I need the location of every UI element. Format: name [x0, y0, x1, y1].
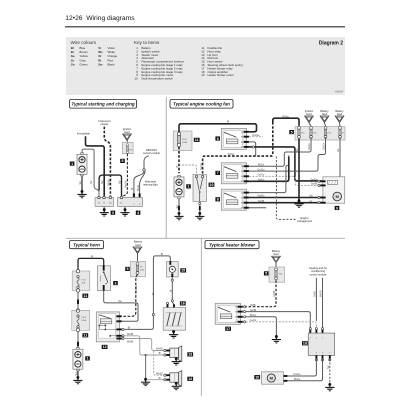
svg-text:Gn/Ge: Gn/Ge [257, 168, 265, 171]
svg-text:H33054: H33054 [335, 92, 344, 94]
svg-text:Heater blower motor: Heater blower motor [208, 73, 234, 77]
svg-text:Rt: Rt [91, 256, 94, 259]
svg-text:100A: 100A [182, 141, 187, 144]
svg-text:Ws/Sw: Ws/Sw [135, 285, 138, 293]
svg-text:100A: 100A [81, 319, 86, 322]
svg-text:Sw: Sw [309, 195, 313, 198]
svg-text:Br: Br [159, 377, 162, 380]
svg-text:Sw/Ge: Sw/Ge [257, 195, 265, 198]
svg-text:Black: Black [108, 62, 116, 66]
svg-text:1: 1 [71, 162, 73, 166]
svg-text:Wire colours: Wire colours [71, 40, 97, 45]
svg-text:1: 1 [87, 357, 89, 361]
svg-text:3: 3 [112, 211, 114, 215]
svg-text:Sw: Sw [118, 300, 122, 303]
svg-text:feed: feed [135, 243, 141, 247]
svg-text:12: 12 [103, 345, 107, 349]
svg-text:Gn/Gr: Gn/Gr [323, 143, 326, 150]
svg-text:control module: control module [143, 151, 161, 155]
svg-text:Br: Br [170, 289, 173, 292]
svg-text:5: 5 [122, 159, 124, 163]
svg-text:feed: feed [273, 252, 279, 256]
svg-text:Sw: Sw [75, 372, 78, 376]
svg-text:Br: Br [159, 352, 162, 355]
svg-text:Sw/Gr: Sw/Gr [258, 179, 265, 182]
svg-text:Sw/Bl: Sw/Bl [258, 200, 265, 203]
svg-text:Ws/Bl: Ws/Bl [156, 372, 163, 375]
svg-text:Rt: Rt [227, 121, 230, 124]
svg-text:12•26 Wiring diagrams: 12•26 Wiring diagrams [65, 15, 135, 22]
svg-text:9: 9 [336, 206, 338, 210]
svg-text:Sw: Sw [327, 365, 330, 369]
svg-text:Sw: Sw [296, 148, 299, 152]
svg-text:1: 1 [188, 185, 190, 189]
svg-text:Rt/Bl: Rt/Bl [250, 304, 256, 307]
svg-text:Ge/Gr: Ge/Gr [250, 319, 257, 322]
svg-text:Gr/Ge: Gr/Ge [258, 174, 265, 177]
svg-text:warning light: warning light [143, 183, 158, 187]
svg-text:19: 19 [255, 376, 259, 380]
svg-text:Gn/Ge: Gn/Ge [252, 134, 260, 137]
svg-text:Sw/Bl: Sw/Bl [311, 183, 318, 186]
svg-text:Rt/Ge: Rt/Ge [258, 163, 265, 166]
svg-text:Dual temperature switch: Dual temperature switch [142, 77, 174, 81]
svg-text:Sw: Sw [101, 180, 104, 184]
svg-text:Immobiliser: Immobiliser [77, 132, 90, 136]
svg-text:2: 2 [115, 281, 117, 285]
svg-text:feed: feed [337, 112, 343, 116]
svg-text:Gr: Gr [310, 200, 313, 203]
svg-text:Gn: Gn [71, 62, 75, 66]
svg-text:Bl/Gn: Bl/Gn [137, 184, 140, 191]
svg-text:Rt/Gn: Rt/Gn [308, 143, 311, 150]
svg-text:Sw: Sw [79, 181, 82, 185]
svg-text:Key to items: Key to items [134, 40, 160, 45]
svg-text:Green: Green [80, 62, 88, 66]
svg-text:15: 15 [181, 269, 185, 273]
svg-text:7: 7 [217, 171, 219, 175]
svg-text:Ws/Bl: Ws/Bl [127, 333, 134, 336]
svg-text:control module: control module [309, 272, 327, 276]
svg-text:feed: feed [306, 112, 312, 116]
svg-text:5: 5 [291, 130, 293, 134]
svg-text:16: 16 [181, 302, 185, 306]
svg-text:Rt/Sw: Rt/Sw [108, 179, 111, 186]
svg-text:Br: Br [161, 253, 164, 256]
svg-text:Sw: Sw [98, 62, 103, 66]
svg-text:Or/Bl: Or/Bl [314, 291, 317, 297]
svg-text:Gn/Bl: Gn/Bl [250, 309, 257, 312]
svg-text:feed: feed [322, 112, 328, 116]
svg-text:18: 18 [303, 342, 307, 346]
svg-text:Br: Br [128, 327, 131, 330]
svg-text:4: 4 [137, 211, 139, 215]
svg-text:Br/Gn: Br/Gn [250, 314, 257, 317]
svg-text:Gn/Bl: Gn/Bl [273, 290, 276, 297]
svg-text:Sw/Ge: Sw/Ge [310, 179, 318, 182]
svg-text:management: management [297, 219, 312, 223]
svg-text:Rt/Sw: Rt/Sw [282, 115, 289, 118]
svg-text:Ws/Bl: Ws/Bl [156, 348, 163, 351]
svg-text:Ws/Bl: Ws/Bl [320, 290, 323, 297]
svg-text:Sw/Ge: Sw/Ge [125, 180, 128, 188]
svg-text:8: 8 [217, 198, 219, 202]
svg-text:Ws/Bl: Ws/Bl [127, 340, 134, 343]
svg-text:feed: feed [124, 130, 130, 134]
svg-text:cluster: cluster [101, 122, 109, 126]
svg-text:Typical engine cooling fan: Typical engine cooling fan [173, 102, 230, 107]
svg-text:5: 5 [127, 267, 129, 271]
svg-text:Typical starting and charging: Typical starting and charging [71, 102, 134, 107]
svg-text:Typical heater blower: Typical heater blower [209, 242, 256, 247]
svg-text:17: 17 [226, 327, 230, 331]
svg-text:Sw/Gr: Sw/Gr [200, 163, 203, 170]
svg-text:10: 10 [135, 77, 139, 81]
svg-text:11: 11 [83, 334, 87, 338]
svg-text:19: 19 [201, 73, 205, 77]
svg-text:Rt/Ge: Rt/Ge [294, 378, 301, 381]
svg-text:11: 11 [195, 138, 199, 142]
svg-text:14: 14 [188, 377, 192, 381]
svg-text:Typical horn: Typical horn [73, 242, 100, 247]
svg-text:5: 5 [265, 272, 267, 276]
svg-text:Sw: Sw [119, 180, 122, 184]
svg-text:Sw/Gr: Sw/Gr [228, 153, 235, 156]
svg-text:Sw: Sw [176, 205, 179, 209]
svg-text:11: 11 [83, 294, 87, 298]
svg-text:10: 10 [210, 183, 214, 187]
svg-text:Sw: Sw [90, 180, 93, 184]
svg-text:Gn/Ge: Gn/Ge [293, 373, 301, 376]
svg-text:Br: Br [152, 292, 155, 295]
svg-text:6: 6 [217, 137, 219, 141]
svg-text:Diagram 2: Diagram 2 [319, 41, 343, 47]
svg-text:Rt: Rt [176, 165, 179, 168]
svg-text:13: 13 [188, 353, 192, 357]
